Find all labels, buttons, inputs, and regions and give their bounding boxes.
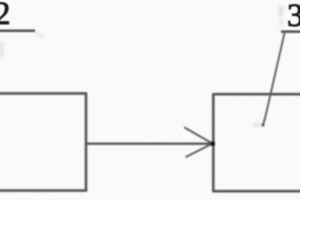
svg-text:2: 2 <box>0 0 11 32</box>
svg-text:3: 3 <box>287 0 300 34</box>
